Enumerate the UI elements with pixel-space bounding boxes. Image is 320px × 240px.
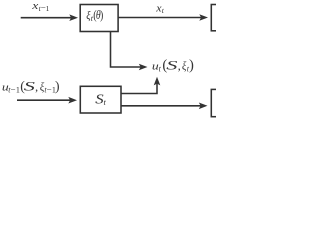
svg-text:S: S [166,58,177,72]
svg-text:t: t [159,65,162,74]
svg-text:): ) [55,79,60,95]
svg-text:t: t [162,6,165,15]
svg-text:1: 1 [46,4,50,13]
svg-text:−: − [11,84,16,94]
svg-text:x: x [155,3,162,14]
svg-text:): ) [189,58,194,74]
svg-text:,: , [35,80,38,94]
svg-text:t: t [104,97,107,107]
svg-text:): ) [100,9,104,22]
svg-text:S: S [24,79,35,93]
svg-text:,: , [178,59,181,73]
